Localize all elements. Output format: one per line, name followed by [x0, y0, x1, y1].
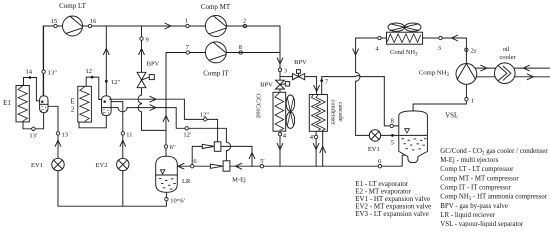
svg-text:EV1: EV1 [368, 146, 380, 153]
wire: EV1 riser into E1 separator [48, 106, 61, 158]
node 6 on header [378, 158, 382, 168]
expansion valve EV1 (HT, NH3) [368, 130, 381, 153]
wire: E2 top outlet to separator [86, 77, 101, 99]
svg-text:GC/Cond: GC/Cond [255, 94, 262, 119]
node 13 [56, 131, 68, 138]
wire: E1 top outlet to separator [24, 78, 40, 101]
svg-text:Comp LT - LT compressor: Comp LT - LT compressor [440, 166, 514, 173]
valve BPV (gas cooler line) [260, 80, 290, 89]
svg-text:4': 4' [310, 134, 314, 141]
node 8 (NH3, into VSL) [390, 117, 394, 127]
node 5' on header [260, 158, 264, 168]
svg-text:12": 12" [111, 79, 121, 86]
wire: GC outlet down to liquid header [277, 136, 283, 166]
svg-text:Comp IT: Comp IT [203, 70, 229, 78]
svg-text:5': 5' [260, 158, 264, 165]
svg-text:BPV: BPV [260, 82, 273, 89]
node 12'' on suction [105, 79, 121, 86]
node 10=6' [165, 197, 185, 204]
oil cooler [475, 46, 550, 84]
compressor Comp MT [201, 3, 231, 37]
liquid receiver LR [156, 156, 191, 192]
wire: liquid line 12' from E2 separator to ejector R2 with dip under riser [111, 105, 230, 161]
wire: EV2 down to liquid feed header [122, 171, 124, 207]
node 14 [26, 69, 33, 79]
svg-text:14: 14 [26, 69, 33, 76]
evaporator E1 [3, 86, 29, 122]
svg-text:13': 13' [29, 133, 37, 140]
svg-text:Comp LT: Comp LT [59, 2, 86, 10]
ejector R1 nozzle [202, 144, 214, 148]
node 4' (CO2, cascade outlet) [310, 134, 318, 141]
svg-text:1: 1 [185, 18, 188, 25]
valve BPV (cascade line) [293, 59, 308, 80]
svg-text:3: 3 [438, 45, 441, 52]
svg-text:2: 2 [71, 106, 75, 114]
svg-text:11: 11 [126, 131, 132, 138]
wire: Comp IT discharge joining column [226, 52, 280, 54]
separator VSL [399, 111, 459, 163]
separator vessel at E1 [40, 96, 48, 113]
wire: header up into cascade condenser bottom [320, 131, 326, 166]
wire: R1 right line to header [221, 146, 255, 166]
node 11 [121, 131, 132, 138]
svg-text:EV2: EV2 [96, 162, 108, 169]
compressor Comp LT [59, 2, 86, 36]
legend: evaporators and valves [355, 180, 431, 218]
node 5 (NH3) [391, 134, 394, 147]
expansion valve EV1 (LT) [31, 158, 64, 170]
wire: Comp NH3 discharge to condenser [423, 35, 467, 63]
node 3 (NH3) [438, 36, 442, 52]
wire: vapor line 12'' from E2 separator to ejector R1 [110, 96, 218, 141]
node 3 (CO2) [278, 68, 287, 75]
ejector R2 nozzle [210, 164, 223, 168]
node 2 [243, 18, 247, 28]
node 2s [465, 47, 477, 54]
node 16 [88, 18, 97, 28]
wire: LR liquid to ejector suction [177, 146, 210, 169]
svg-text:cooler: cooler [499, 54, 516, 61]
svg-text:1: 1 [471, 97, 474, 104]
node 6'' [164, 144, 176, 151]
wire: node 3 branch to cascade condenser via BPV [280, 77, 319, 95]
svg-text:M-Ej - multi ejectors: M-Ej - multi ejectors [440, 157, 498, 164]
condenser Cond NH3 [387, 23, 423, 58]
svg-text:Comp IT - IT compressor: Comp IT - IT compressor [440, 185, 511, 192]
wire: CO2 LT/MT suction header y=26 [43, 23, 205, 95]
svg-text:10=6': 10=6' [170, 197, 185, 204]
ejector R1 [214, 142, 221, 152]
cascade condenser [309, 95, 344, 132]
wire: Comp MT suction from E2 separator [104, 27, 110, 96]
gas cooler GC/Cond [255, 92, 295, 131]
svg-text:cascade: cascade [337, 102, 344, 122]
node 7 (NH3, cascade vapor out) [320, 77, 355, 95]
svg-text:6": 6" [170, 144, 176, 151]
node 4 (NH3) [375, 36, 381, 52]
compressor Comp NH3 [419, 64, 477, 85]
wire: Comp MT discharge to node 3 column [226, 26, 282, 68]
svg-text:BPV: BPV [294, 59, 307, 66]
ejector R2 [223, 161, 246, 184]
compressor Comp IT [203, 42, 229, 78]
valve BPV (flash gas) [137, 61, 160, 88]
svg-text:Comp MT - MT compressor: Comp MT - MT compressor [440, 175, 519, 182]
legend: components [440, 148, 548, 228]
wire: NH3 condensate to EV1 with hop [353, 38, 387, 135]
svg-text:12": 12" [200, 111, 210, 118]
separator vessel at E2 [102, 96, 112, 116]
node 4 (CO2, GC outlet) [278, 132, 287, 139]
node 1 (CO2) [185, 18, 189, 28]
wire: flash gas bypass line with hops [138, 27, 166, 131]
wire: E1 bottom liquid loop [23, 113, 44, 129]
svg-text:VSL: VSL [445, 112, 458, 120]
wire: cascade CO2 outlet down to header [313, 131, 319, 166]
svg-text:16: 16 [90, 18, 97, 25]
node 1 (NH3) [465, 97, 474, 104]
svg-text:Comp MT: Comp MT [201, 3, 231, 11]
svg-text:E1: E1 [3, 99, 11, 107]
svg-text:12: 12 [85, 68, 92, 75]
svg-text:LR - liquid reciever: LR - liquid reciever [440, 212, 495, 219]
svg-text:M-Ej: M-Ej [232, 177, 246, 184]
wire: LR inlet column from bypass junction [165, 130, 167, 156]
node 13' [29, 127, 37, 140]
svg-text:12': 12' [183, 131, 191, 138]
svg-text:2s: 2s [471, 47, 477, 54]
wire: EV2 riser into E2 separator [111, 102, 126, 159]
wire: CO2 liquid bottom header [230, 155, 408, 169]
wire: Comp IT suction line [163, 53, 205, 131]
node 12'' on ejector feed [200, 111, 210, 121]
node 7 (CO2) [186, 44, 190, 54]
wire: LR bottom stub [165, 192, 167, 197]
wire: EV1 outlet into VSL [381, 134, 399, 136]
svg-text:oil: oil [503, 46, 510, 53]
svg-text:EV1: EV1 [31, 162, 43, 169]
svg-text:condenser: condenser [329, 100, 336, 126]
node 12' on ejector feed [183, 127, 191, 139]
svg-text:15: 15 [51, 18, 58, 25]
node 13'' [42, 69, 57, 76]
node 6 (LR outlet) [191, 158, 198, 168]
svg-text:5: 5 [391, 140, 394, 147]
wire: node 3 to GC/Cond through BPV [279, 72, 281, 93]
node 8 (CO2) [239, 44, 243, 54]
svg-text:LR: LR [182, 178, 191, 185]
wire: E2 bottom liquid loop [79, 116, 106, 128]
node 12 [85, 68, 93, 79]
svg-text:BPV - gas by-pass valve: BPV - gas by-pass valve [440, 203, 508, 210]
svg-text:9: 9 [146, 36, 149, 43]
svg-text:8: 8 [239, 44, 242, 51]
svg-text:13: 13 [62, 131, 69, 138]
svg-text:13": 13" [48, 69, 58, 76]
expansion valve EV2 (MT) [96, 158, 129, 170]
wire: cascade vapor to VSL with jump over NH3 drop line [355, 76, 399, 126]
evaporator E2 [70, 86, 91, 122]
wire: Comp LT suction from separator top [43, 27, 45, 96]
svg-text:8: 8 [391, 117, 394, 124]
svg-text:E: E [70, 98, 74, 106]
wire: bottom liquid feed header from LR [58, 171, 166, 207]
svg-text:VSL - vapour-liquid separator: VSL - vapour-liquid separator [440, 221, 524, 227]
svg-text:BPV: BPV [147, 61, 160, 68]
svg-text:EV3 - LT expansion valve: EV3 - LT expansion valve [355, 210, 429, 218]
svg-text:3: 3 [284, 68, 287, 75]
node 15 [51, 18, 58, 28]
wire: VSL vapor to Comp NH3 [413, 85, 466, 111]
svg-text:2: 2 [243, 18, 246, 25]
node 9 [140, 36, 149, 43]
